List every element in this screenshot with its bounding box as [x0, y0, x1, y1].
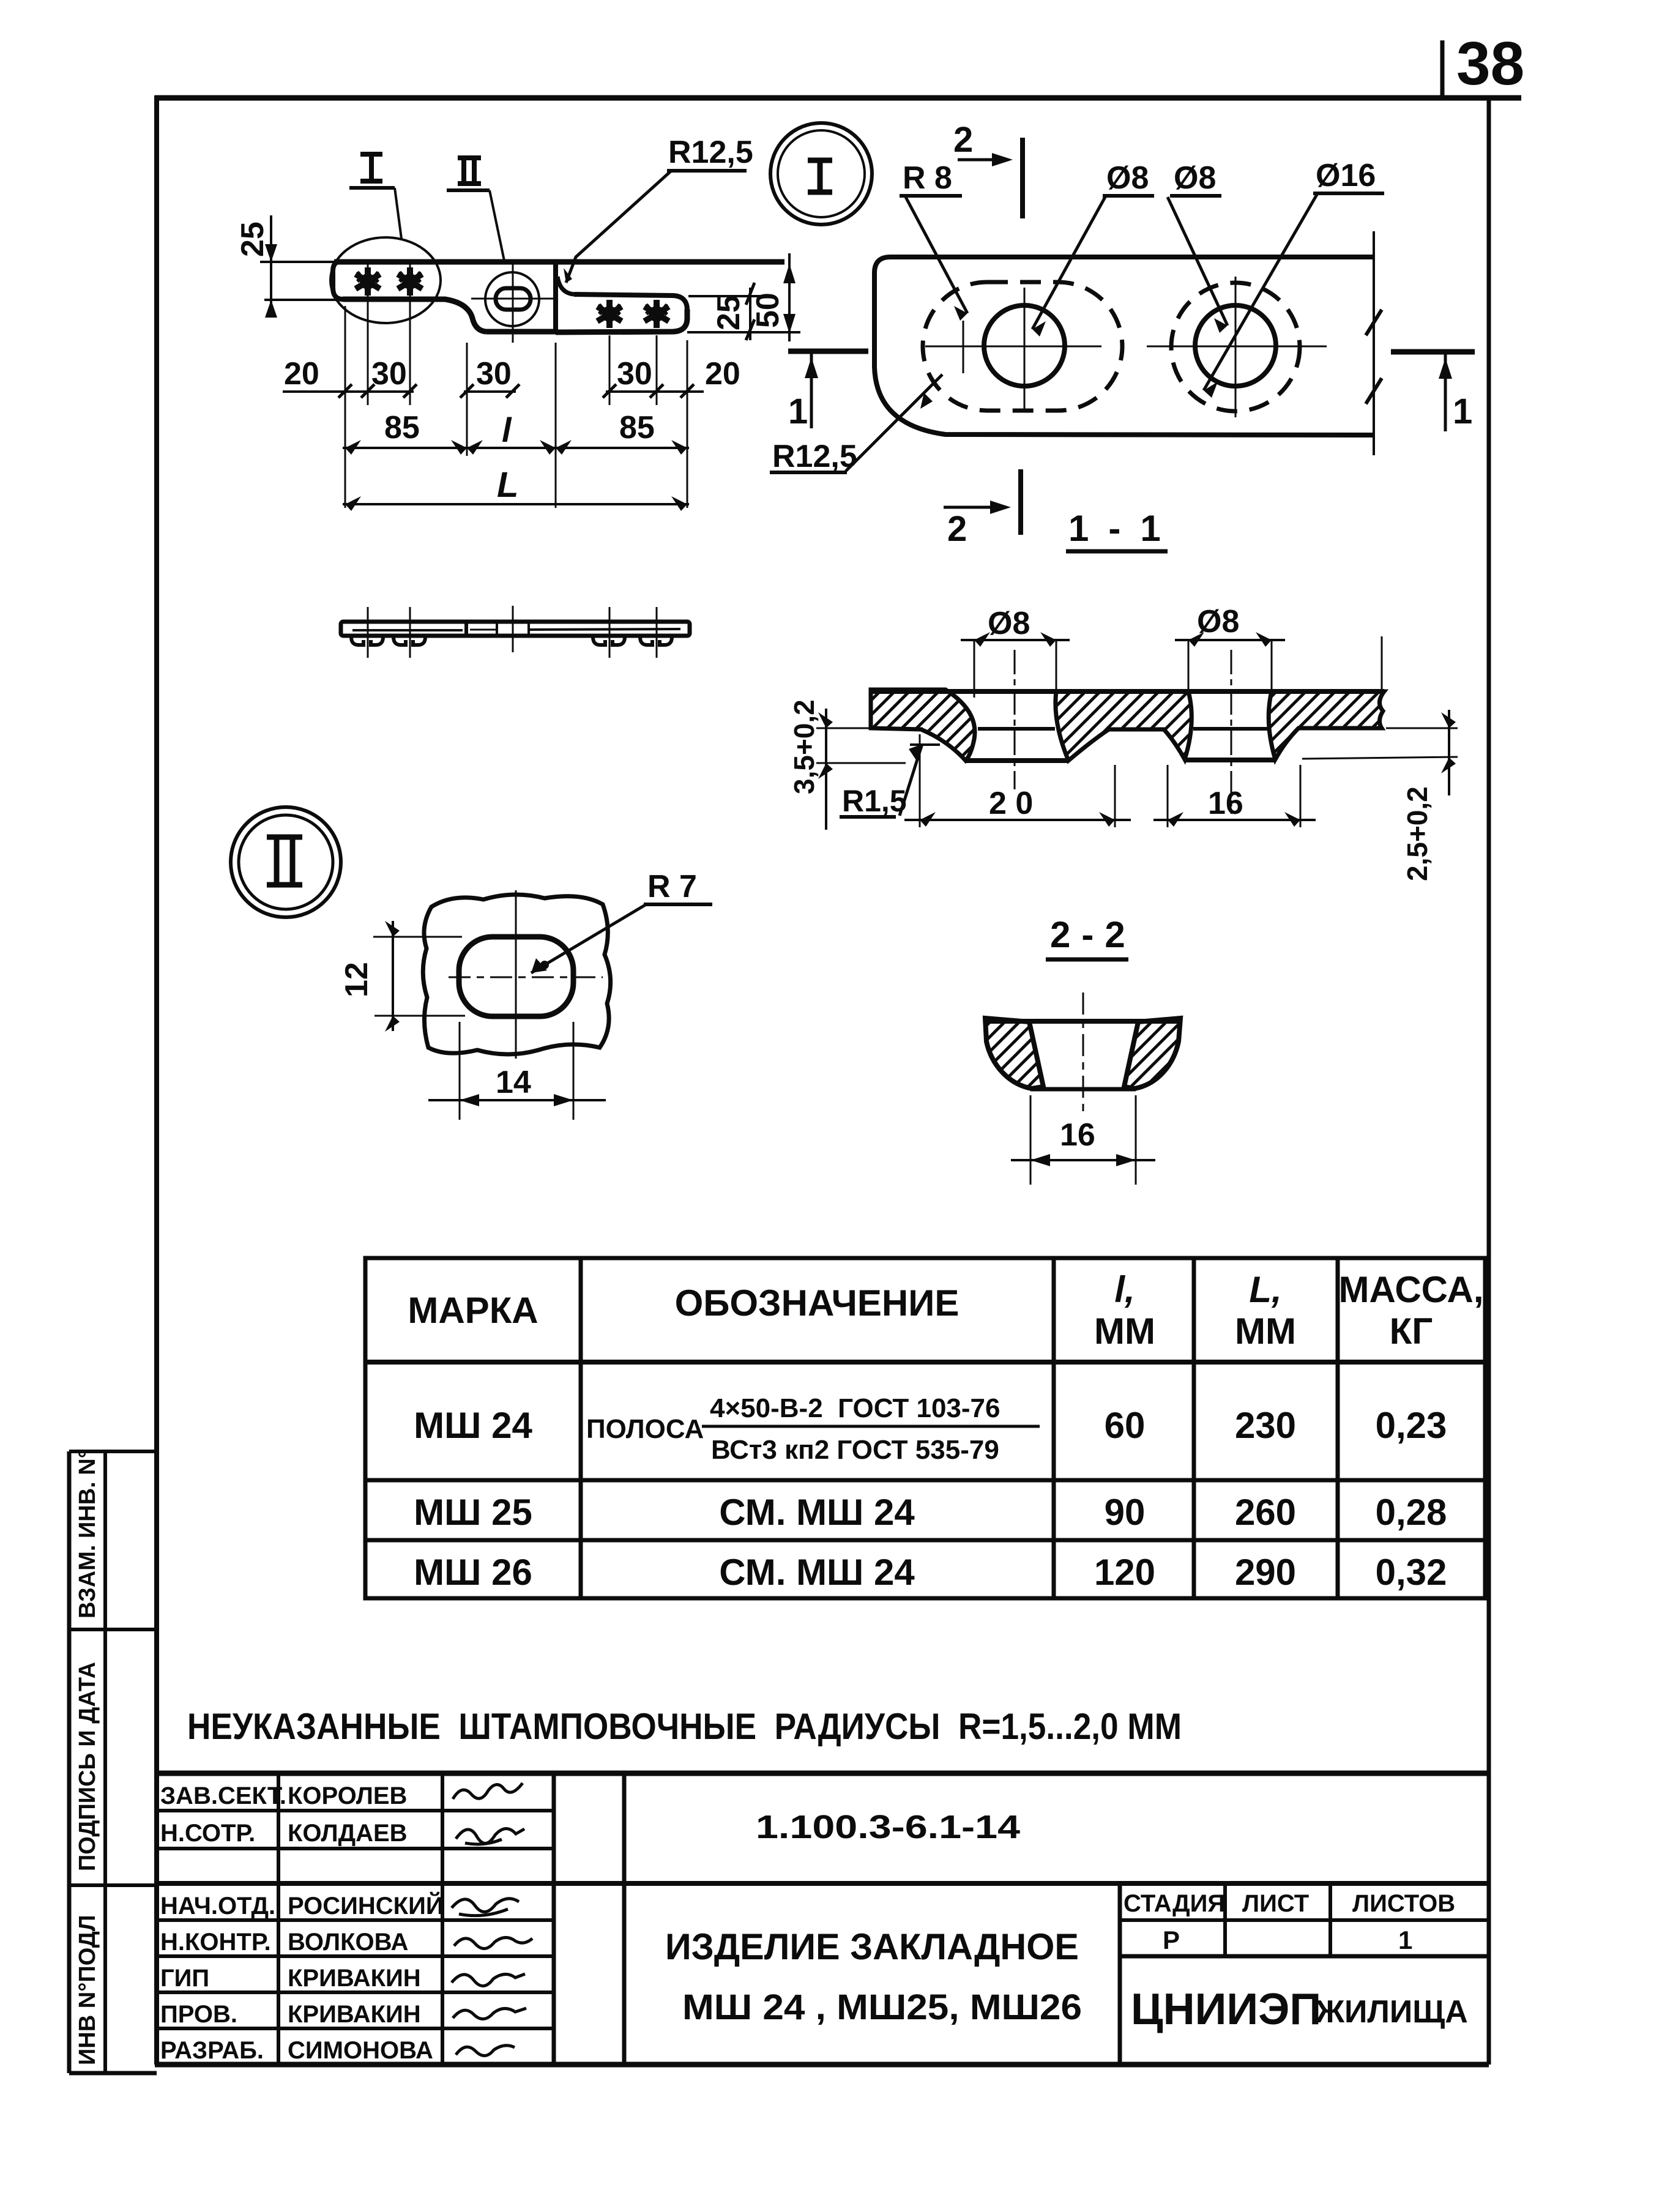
right hatched wall: [1124, 1018, 1180, 1089]
svg-text:l: l: [502, 411, 512, 449]
svg-text:ПОДПИСЬ И ДАТА: ПОДПИСЬ И ДАТА: [75, 1662, 100, 1871]
svg-text:МШ 26: МШ 26: [414, 1552, 532, 1593]
svg-text:СИМОНОВА: СИМОНОВА: [288, 2037, 433, 2064]
right lobe top edge: [574, 294, 687, 309]
svg-text:90: 90: [1105, 1492, 1146, 1533]
section mark 2 top: [1020, 138, 1025, 218]
svg-text:МШ 25: МШ 25: [414, 1492, 532, 1533]
svg-text:ИЗДЕЛИЕ ЗАКЛАДНОЕ: ИЗДЕЛИЕ ЗАКЛАДНОЕ: [665, 1926, 1079, 1967]
left attachment strip: [69, 1451, 157, 2073]
svg-text:3,5+0,2: 3,5+0,2: [788, 699, 820, 794]
svg-text:290: 290: [1235, 1552, 1296, 1593]
svg-text:МАРКА: МАРКА: [408, 1290, 538, 1331]
svg-text:1: 1: [1453, 392, 1472, 431]
svg-text:230: 230: [1235, 1405, 1296, 1446]
svg-text:4×50-В-2 ГОСТ 103-76: 4×50-В-2 ГОСТ 103-76: [710, 1393, 1000, 1423]
centerline left hole: [1014, 650, 1016, 789]
svg-text:ПОЛОСА: ПОЛОСА: [586, 1414, 704, 1444]
svg-text:Р: Р: [1163, 1926, 1180, 1954]
svg-text:R 7: R 7: [647, 869, 697, 904]
svg-text:НЕУКАЗАННЫЕ ШТАМПОВОЧНЫЕ РАД: НЕУКАЗАННЫЕ ШТАМПОВОЧНЫЕ РАДИУСЫ R=1,5..…: [187, 1706, 1182, 1747]
svg-text:30: 30: [476, 356, 512, 392]
hatched piece right: [1269, 691, 1384, 759]
svg-text:1-1: 1-1: [1068, 508, 1180, 549]
svg-text:Ø8: Ø8: [1197, 604, 1239, 639]
svg-text:16: 16: [1208, 786, 1243, 821]
svg-text:30: 30: [617, 356, 652, 392]
svg-text:16: 16: [1060, 1117, 1095, 1153]
svg-text:0,28: 0,28: [1376, 1492, 1447, 1533]
bar outline: [341, 622, 690, 636]
left hole solid: [984, 305, 1065, 386]
slot vertical centerline: [512, 259, 514, 343]
svg-text:Н.КОНТР.: Н.КОНТР.: [160, 1929, 271, 1956]
svg-text:ИНВ N°ПОДЛ: ИНВ N°ПОДЛ: [75, 1915, 100, 2066]
detail I callout ellipse: [330, 237, 441, 323]
middle slot: [496, 288, 531, 310]
top surface line: [871, 689, 1384, 694]
svg-text:38: 38: [1456, 29, 1524, 98]
svg-text:1.100.3-6.1-14: 1.100.3-6.1-14: [756, 1809, 1020, 1845]
right hole crosshair: [1147, 346, 1327, 348]
svg-text:2 0: 2 0: [989, 786, 1033, 821]
plate top edge: [334, 259, 784, 265]
svg-text:R12,5: R12,5: [668, 135, 753, 170]
svg-text:МШ 24: МШ 24: [414, 1405, 532, 1446]
dashed obround around left hole: [923, 282, 1122, 411]
svg-text:2-2: 2-2: [1050, 914, 1136, 955]
plan bottom dims: extension lines: [345, 264, 687, 508]
svg-text:1: 1: [1398, 1926, 1412, 1954]
slot hole in patch: [459, 937, 573, 1016]
dim row 1: 20 30 / 30 / 30 20: [283, 390, 704, 393]
svg-text:60: 60: [1105, 1405, 1146, 1446]
svg-text:30: 30: [371, 356, 407, 392]
svg-text:РОСИНСКИЙ: РОСИНСКИЙ: [288, 1891, 444, 1920]
svg-text:L,: L,: [1249, 1269, 1281, 1310]
weld star 4: [644, 300, 669, 328]
svg-text:85: 85: [619, 410, 655, 445]
section mark 1 left: [788, 349, 868, 354]
svg-text:ММ: ММ: [1094, 1311, 1155, 1352]
weld star 1: [356, 267, 380, 296]
weld star 3: [597, 300, 622, 328]
svg-text:85: 85: [384, 410, 420, 445]
right end extension up: [1381, 636, 1383, 689]
svg-text:ЦНИИЭП: ЦНИИЭП: [1131, 1985, 1321, 2034]
centerlines of side view: [368, 606, 657, 658]
middle bottom edge: [486, 329, 556, 335]
svg-text:ЗАВ.СЕКТ.: ЗАВ.СЕКТ.: [160, 1782, 286, 1809]
svg-text:Ø8: Ø8: [988, 606, 1030, 641]
label I with leader: [360, 154, 382, 181]
svg-text:20: 20: [284, 356, 319, 392]
label II with leader: [458, 158, 481, 184]
callout circle I: [770, 123, 872, 225]
svg-text:НАЧ.ОТД.: НАЧ.ОТД.: [160, 1893, 275, 1920]
wavy patch outline: [423, 895, 610, 1054]
svg-text:РАЗРАБ.: РАЗРАБ.: [160, 2037, 264, 2064]
svg-text:12: 12: [339, 962, 375, 997]
spec table: [365, 1258, 1485, 1598]
svg-text:ОБОЗНАЧЕНИЕ: ОБОЗНАЧЕНИЕ: [675, 1283, 960, 1324]
slot horizontal centerline: [471, 298, 554, 300]
svg-text:КГ: КГ: [1390, 1311, 1433, 1352]
dimple bumps: [351, 637, 672, 645]
centerlines: [449, 977, 603, 978]
dim row 2: 85 l 85: [343, 447, 689, 449]
section mark 2 bottom: [1018, 469, 1023, 535]
svg-text:R 8: R 8: [903, 160, 952, 196]
svg-text:14: 14: [496, 1065, 531, 1100]
signatures squiggles: [452, 1783, 532, 2056]
page number 38: [1442, 29, 1524, 99]
right hole solid: [1195, 305, 1276, 386]
right trough bottom: [1185, 758, 1275, 762]
plate outline detail I: [874, 257, 1374, 435]
svg-text:2: 2: [947, 509, 967, 549]
left hatched wall: [985, 1018, 1043, 1089]
hatched piece middle: [1056, 691, 1191, 761]
svg-text:ВСт3 кп2 ГОСТ 535-79: ВСт3 кп2 ГОСТ 535-79: [711, 1435, 999, 1465]
svg-text:L: L: [497, 465, 518, 505]
svg-text:2: 2: [953, 120, 973, 160]
svg-text:Ø16: Ø16: [1316, 158, 1376, 193]
weld star 2: [398, 267, 422, 296]
right lobe right/bottom edge: [556, 309, 687, 332]
far bottom edge right hole: [1193, 727, 1268, 731]
callout circle II: [231, 807, 341, 917]
top edge: [987, 1019, 1179, 1024]
svg-text:СМ. МШ 24: СМ. МШ 24: [719, 1552, 915, 1593]
centerline: [1083, 992, 1084, 1115]
svg-text:25: 25: [235, 222, 270, 257]
svg-text:КРИВАКИН: КРИВАКИН: [288, 1965, 421, 1992]
title block grid: [157, 1773, 1489, 2065]
bottom extension line to 50-dim: [687, 331, 800, 333]
svg-text:0,32: 0,32: [1376, 1552, 1447, 1593]
svg-text:СТАДИЯ: СТАДИЯ: [1124, 1890, 1225, 1917]
svg-text:КОЛДАЕВ: КОЛДАЕВ: [288, 1820, 408, 1847]
right dim line of detail I: [1373, 231, 1375, 455]
svg-text:1: 1: [788, 392, 808, 431]
drawing frame: [155, 95, 1521, 2065]
slot edges in side view: [496, 623, 498, 635]
svg-text:ЛИСТОВ: ЛИСТОВ: [1352, 1890, 1455, 1917]
svg-text:ММ: ММ: [1235, 1311, 1296, 1352]
svg-text:Ø8: Ø8: [1106, 160, 1149, 196]
fillet R12.5 at step: [557, 277, 574, 294]
svg-text:ВОЛКОВА: ВОЛКОВА: [288, 1929, 408, 1956]
svg-text:МШ 24 , МШ25, МШ26: МШ 24 , МШ25, МШ26: [682, 1987, 1082, 2027]
svg-text:2,5+0,2: 2,5+0,2: [1401, 786, 1433, 881]
svg-text:МАССА,: МАССА,: [1339, 1269, 1484, 1310]
slot circle callout II ring: [485, 272, 539, 326]
svg-text:ЖИЛИЩА: ЖИЛИЩА: [1315, 1994, 1468, 2030]
bottom far edge: [1030, 1087, 1136, 1092]
svg-text:20: 20: [705, 356, 740, 392]
svg-text:260: 260: [1235, 1492, 1296, 1533]
svg-text:КОРОЛЕВ: КОРОЛЕВ: [288, 1782, 407, 1809]
svg-text:КРИВАКИН: КРИВАКИН: [288, 2001, 421, 2028]
svg-text:ГИП: ГИП: [160, 1965, 209, 1992]
svg-text:ЛИСТ: ЛИСТ: [1242, 1890, 1309, 1917]
svg-text:R12,5: R12,5: [772, 439, 857, 474]
centerline right hole: [1231, 650, 1232, 814]
svg-text:ВЗАМ. ИНВ. N°: ВЗАМ. ИНВ. N°: [75, 1449, 100, 1618]
svg-text:Н.СОТР.: Н.СОТР.: [160, 1820, 255, 1847]
svg-text:СМ. МШ 24: СМ. МШ 24: [719, 1492, 915, 1533]
svg-text:120: 120: [1094, 1552, 1155, 1593]
left hole crosshair: [925, 346, 1101, 348]
plate left end cap: [333, 262, 343, 299]
hatched piece left: [871, 690, 975, 761]
section mark 1 right: [1391, 349, 1475, 355]
svg-text:25: 25: [711, 295, 747, 330]
left lobe bottom edge: [343, 299, 486, 332]
svg-text:Ø8: Ø8: [1174, 160, 1216, 196]
svg-text:l,: l,: [1114, 1269, 1135, 1310]
title block texts left column: [160, 1782, 444, 2064]
left trough bottom: [966, 758, 1068, 763]
step vertical edge: [553, 262, 558, 333]
dim row 3: L: [343, 503, 689, 505]
svg-text:ПРОВ.: ПРОВ.: [160, 2001, 237, 2028]
svg-text:R1,5: R1,5: [842, 784, 907, 818]
svg-text:50: 50: [750, 292, 786, 328]
far bottom edge left hole: [978, 727, 1055, 731]
svg-text:0,23: 0,23: [1376, 1405, 1447, 1446]
dashed circle O16: [1171, 283, 1300, 411]
top-right extension of lobe for 25-dim: [688, 295, 761, 297]
